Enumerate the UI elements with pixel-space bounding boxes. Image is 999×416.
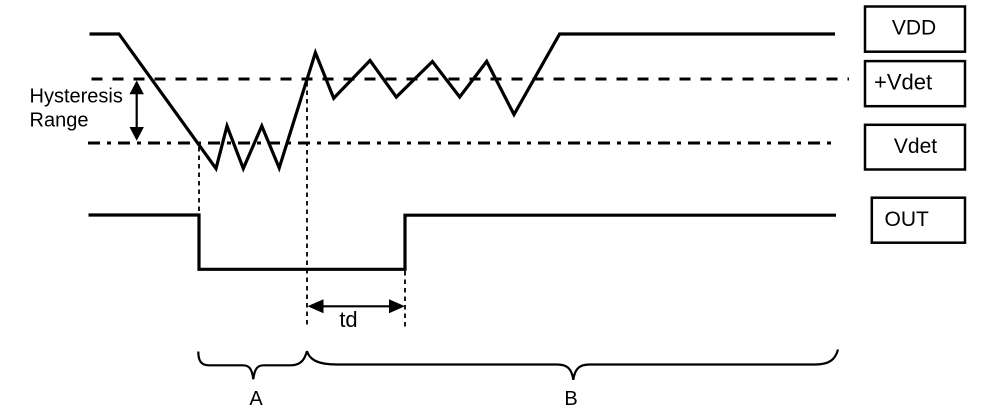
svg-text:VDD: VDD <box>892 17 936 40</box>
svg-text:B: B <box>564 388 577 410</box>
svg-text:td: td <box>339 307 357 332</box>
svg-text:+Vdet: +Vdet <box>874 70 932 95</box>
svg-text:Range: Range <box>30 110 89 132</box>
svg-text:A: A <box>249 388 263 410</box>
svg-text:Vdet: Vdet <box>894 135 937 158</box>
svg-text:OUT: OUT <box>885 208 930 231</box>
svg-text:Hysteresis: Hysteresis <box>30 86 123 108</box>
